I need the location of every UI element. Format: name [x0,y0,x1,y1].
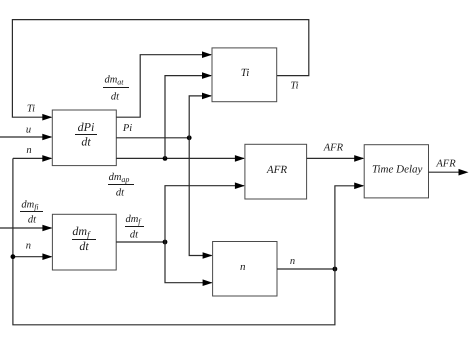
svg-text:dPi: dPi [78,120,95,134]
arrowhead dm_fi into dm_f/dt block [42,225,52,232]
wire dm_f branch down to n-block input 2 [165,242,212,283]
svg-text:n: n [240,261,246,273]
wire u input [0,136,51,138]
svg-text:n: n [290,256,295,267]
svg-text:n: n [26,241,31,252]
svg-text:dt: dt [79,239,89,253]
svg-text:dt: dt [28,215,37,226]
arrowhead dm_ap into AFR [235,155,245,162]
arrowhead AFR output [459,169,469,176]
wire dm_ap branch up to Ti input 2 [165,76,211,159]
arrowhead dm_f into n block [203,279,213,286]
wire AFR output to Time Delay input 1 [307,157,364,159]
arrowhead Ti into dPi/dt [42,114,52,121]
block dm_f/dt [52,214,116,270]
label fraction dm_f/dt at output [125,214,144,241]
wire Pi branch down to n-block input 1 [189,138,211,256]
label fraction dm_f/dt inside block [72,224,96,253]
wire Pi branch up to Ti input 3 [189,96,211,138]
block Time Delay [364,145,428,198]
arrowhead Pi into Ti [202,93,212,100]
wire dm_f (block output, ends at junction) [116,241,165,243]
arrowhead u into dPi/dt [42,134,52,141]
wire dm_at (dPi/dt output 1 to Ti input 1) [116,55,211,117]
svg-text:Ti: Ti [290,81,298,92]
junction n node [333,267,338,272]
block AFR [245,144,307,199]
junction n left riser node [11,254,16,259]
wire n into dm_f/dt block (branch from left riser) [13,256,52,258]
arrowhead dm_f into AFR [235,182,245,189]
label fraction dm_fi/dt [20,200,43,226]
svg-text:AFR: AFR [323,143,344,154]
junction Pi node [187,135,192,140]
arrowhead dm_ap into Ti [202,72,212,79]
wire Pi (dPi/dt output 2, ends at junction) [116,137,189,139]
wire n input to dPi/dt (from bottom feedback riser) [13,157,51,159]
wire Ti feedback loop (Ti block output to dPi/dt input 1) [12,20,308,118]
arrowhead n into dPi/dt [42,155,52,162]
svg-text:dt: dt [116,188,125,199]
svg-text:Time Delay: Time Delay [372,164,423,176]
svg-text:n: n [26,145,31,156]
arrowhead AFR into Time Delay [354,155,364,162]
junction dm_f node [163,240,168,245]
block n [213,242,277,297]
wire n branch down along bottom and up left side [13,158,335,324]
label fraction dm_at/dt [103,75,129,103]
wire n feedback (n block output to junction) [277,268,335,270]
junction dm_ap node [163,156,168,161]
svg-text:Ti: Ti [27,104,35,115]
svg-text:Ti: Ti [241,67,250,79]
arrowhead dm_at into Ti [202,51,212,58]
svg-text:dt: dt [81,135,91,149]
svg-text:dt: dt [111,92,120,103]
block Ti [212,48,277,102]
arrowhead Pi into n block [203,252,213,259]
wire dm_f branch up to AFR input 2 [165,186,244,242]
block dPi/dt [52,110,116,166]
wire n branch up to Time Delay input 2 [335,186,363,269]
svg-text:Pi: Pi [122,123,132,134]
wire dm_fi input [0,227,51,229]
label fraction dPi/dt inside block [75,120,97,149]
arrowhead n into Time Delay [354,183,364,190]
svg-text:dt: dt [130,230,139,241]
label fraction dm_ap/dt [108,172,134,199]
arrowhead n into dm_f/dt block [42,253,52,260]
svg-text:AFR: AFR [435,159,456,170]
svg-text:AFR: AFR [266,164,287,176]
svg-text:u: u [26,125,31,136]
wire AFR final output [429,171,460,173]
wire dm_ap (dPi/dt output 3 to AFR input 1) [116,157,244,159]
